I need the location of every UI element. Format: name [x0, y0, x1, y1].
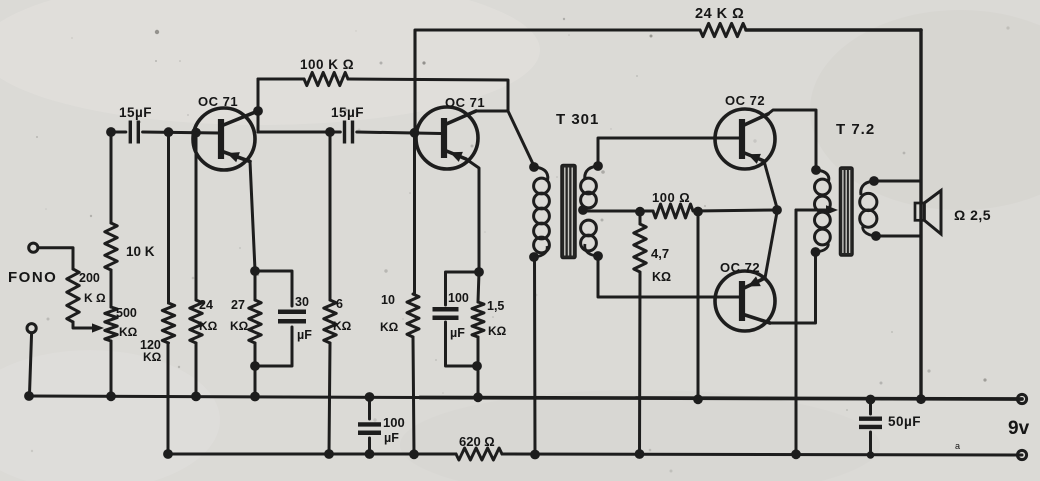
- emitter Q1 diagonal with arrow: [221, 151, 250, 162]
- label 24: [199, 298, 213, 312]
- wire right vertical from 24K corner down to bottom rail (through speaker): [919, 30, 922, 399]
- wire cap1 right lead to Q1 base: [143, 132, 219, 133]
- wire FONO lower terminal down to ground rail: [30, 333, 32, 394]
- wire 100K right lead and corner down: [348, 79, 508, 111]
- junction dot Q1 base: [191, 128, 201, 138]
- label OC 71 (Q2): [445, 95, 485, 110]
- label 50µF: [888, 414, 921, 429]
- wire Q2 collector diagonal: [444, 111, 476, 125]
- wire T7.2 center tap with arrow: [796, 205, 838, 215]
- wire 100K left lead: [258, 78, 304, 81]
- wire Q4 emitter up to common junction: [765, 212, 777, 278]
- wire Q2 base bias vertical from top rail through 10K to lower rail: [407, 133, 419, 454]
- wire T301 primary bottom to lower rail: [533, 257, 537, 454]
- label 30: [295, 295, 309, 309]
- junction dot 30uF bottom on 27K line: [250, 361, 260, 371]
- svg-text:15µF: 15µF: [119, 105, 152, 120]
- label KΩ (10K Q2): [380, 320, 399, 334]
- wire lower supply rail left of 620: [168, 343, 456, 454]
- label KΩ (27K): [230, 319, 249, 333]
- junction dot rail x29 (left end): [24, 391, 34, 401]
- svg-text:OC 72: OC 72: [720, 260, 760, 275]
- junction dot lower rail x535: [530, 450, 540, 460]
- svg-text:KΩ: KΩ: [199, 319, 218, 333]
- junction dot rail x196: [191, 392, 201, 402]
- svg-text:24 K Ω: 24 K Ω: [695, 6, 744, 22]
- label OC 72 (Q4): [720, 260, 760, 275]
- capacitor C-15uF input stage1: [130, 121, 138, 144]
- label 10 (10K Q2): [381, 293, 395, 307]
- junction dot 50uF bottom: [867, 451, 875, 459]
- svg-text:KΩ: KΩ: [380, 320, 399, 334]
- capacitor C-50uF battery bypass: [859, 400, 882, 456]
- junction dot cap1 left (111,132): [106, 127, 116, 137]
- label T 7.2: [836, 121, 875, 138]
- wire cap2 right lead to Q2 base: [357, 132, 441, 134]
- junction dot Q2 emitter node: [474, 267, 484, 277]
- junction dot 100uF bottom on 1.5K line: [472, 361, 482, 371]
- label KΩ (24K): [199, 319, 218, 333]
- label 6: [336, 297, 343, 311]
- svg-text:24: 24: [199, 298, 213, 312]
- junction dot rail x698: [693, 394, 703, 404]
- wire 100ohm to emitters junction: [695, 210, 777, 211]
- terminal FONO lower: [27, 324, 36, 333]
- svg-text:µF: µF: [384, 431, 399, 445]
- svg-text:100: 100: [448, 291, 469, 305]
- junction dot T301 secondary top: [593, 161, 603, 171]
- svg-text:620 Ω: 620 Ω: [459, 434, 495, 449]
- label µF (C stage2): [450, 326, 465, 340]
- terminal battery positive: [1017, 394, 1026, 403]
- svg-text:100: 100: [383, 415, 405, 430]
- wire Q2 collector diagonal to T301 primary top: [508, 111, 534, 166]
- resistor R-120K 120KΩ (line from base node down to lower rail): [162, 132, 174, 343]
- wire T301 secondary top to Q3 base: [598, 138, 740, 166]
- wire stage2 coupling from Q1 collector: [258, 131, 340, 134]
- svg-text:T 301: T 301: [556, 111, 599, 128]
- emitter Q4 diagonal with arrow: [742, 276, 765, 289]
- wire Q1 collector up to 100K: [257, 79, 260, 111]
- junction dot lower rail x329: [324, 449, 334, 459]
- svg-text:4,7: 4,7: [651, 246, 669, 261]
- label K Ω (200K): [84, 291, 106, 305]
- svg-text:KΩ: KΩ: [488, 324, 507, 338]
- junction dot T7.2 secondary top: [869, 176, 879, 186]
- label 100 (decoupling): [383, 415, 405, 430]
- wire T7.2 secondary bottom to speaker line: [876, 235, 921, 238]
- junction dot T301 center tap: [578, 205, 588, 215]
- svg-text:1,5: 1,5: [487, 299, 504, 313]
- svg-text:30: 30: [295, 295, 309, 309]
- junction dot 120K top: [164, 127, 174, 137]
- svg-text:27: 27: [231, 298, 245, 312]
- junction dot 6K top: [325, 127, 335, 137]
- svg-text:Ω 2,5: Ω 2,5: [954, 207, 991, 223]
- svg-text:10 K: 10 K: [126, 244, 155, 259]
- wire emitters bias vertical to upper rail: [697, 212, 700, 400]
- resistor R-100K 100KΩ: [304, 72, 348, 85]
- svg-text:15µF: 15µF: [331, 105, 364, 120]
- wire Q3 collector to T7.2 primary top: [768, 110, 816, 170]
- inter-stage transformer T301 secondary winding: [581, 166, 598, 256]
- label OC 71 (Q1): [198, 94, 238, 109]
- label 620 Ω: [459, 434, 495, 449]
- svg-text:50µF: 50µF: [888, 414, 921, 429]
- transistor Q4 OC72 lower output: [715, 271, 775, 331]
- junction dot rail x921: [916, 394, 926, 404]
- junction dot lower rail left corner: [163, 449, 173, 459]
- junction dot T7.2 secondary bottom: [871, 231, 881, 241]
- label KΩ (120K): [143, 350, 162, 364]
- label KΩ (500K): [119, 325, 138, 339]
- junction dot T301 primary top: [529, 162, 539, 172]
- label µF (decoupling): [384, 431, 399, 445]
- junction dot T301 secondary bottom: [593, 251, 603, 261]
- wire Q2 collector to 100K corner: [476, 110, 508, 113]
- wire 500K bottom to ground rail: [110, 341, 113, 396]
- wire T7.2 secondary top to speaker line: [874, 180, 921, 183]
- wiper arrow into 500K pot: [92, 323, 104, 332]
- label KΩ (4.7K): [652, 270, 671, 284]
- output transformer T7.2 secondary winding: [860, 181, 877, 236]
- svg-text:OC 72: OC 72: [725, 93, 765, 108]
- svg-text:100 K Ω: 100 K Ω: [300, 57, 354, 72]
- svg-text:OC 71: OC 71: [198, 94, 238, 109]
- resistor R-4.7K 4.7KΩ: [634, 212, 646, 454]
- wire between 10K and 500K: [110, 270, 113, 307]
- junction dot lower rail x414: [409, 449, 419, 459]
- junction dot Q1 collector: [253, 106, 263, 116]
- wire 200K bottom to wiper arrow: [73, 322, 94, 328]
- svg-text:µF: µF: [297, 328, 312, 342]
- inter-stage transformer T301 primary winding: [534, 167, 550, 257]
- wire Q1 collector down to stage2 coupling: [257, 111, 260, 132]
- transformer T301 core: [561, 165, 576, 259]
- junction dot rail x478: [473, 392, 483, 402]
- wire center tap to 100ohm: [583, 210, 653, 213]
- svg-text:KΩ: KΩ: [230, 319, 249, 333]
- svg-text:µF: µF: [450, 326, 465, 340]
- transformer T7.2 core: [840, 167, 854, 256]
- label 27: [231, 298, 245, 312]
- wire node A vertical 10K/500K column top: [110, 132, 113, 223]
- junction dot Q1 emitter node: [250, 266, 260, 276]
- resistor R-10K 10KΩ first stage: [105, 223, 117, 270]
- junction dot lower rail x639: [635, 449, 645, 459]
- resistor R-200K 200KΩ: [67, 269, 79, 322]
- wire Q3 emitter to common junction: [764, 161, 777, 208]
- label 15µF stage1: [119, 105, 152, 120]
- label 10 K: [126, 244, 155, 259]
- junction dot T7.2 primary top: [811, 165, 821, 175]
- svg-text:KΩ: KΩ: [119, 325, 138, 339]
- junction dot T7.2 primary bottom: [811, 247, 821, 257]
- transistor Q3 OC72 upper output: [715, 109, 775, 169]
- resistor R-6K 6KΩ: [324, 132, 336, 454]
- label T 301: [556, 111, 599, 128]
- junction dot emitter-rail vertical top: [693, 207, 703, 217]
- label 15µF stage2: [331, 105, 364, 120]
- svg-text:200: 200: [79, 271, 100, 285]
- wire Q4 collector to T7.2 primary bottom: [770, 252, 816, 323]
- stray mark small a: [955, 441, 960, 451]
- transistor Q2 OC71 second stage: [416, 107, 478, 169]
- wire Q1 collector diagonal: [221, 111, 258, 126]
- resistor R-100 100Ω: [653, 204, 693, 218]
- resistor R-1.5K 1.5KΩ emitter: [472, 272, 484, 397]
- capacitor C-100uF decoupling between rails: [358, 397, 381, 454]
- label KΩ (1.5K): [488, 324, 507, 338]
- potentiometer R-500K 500KΩ: [105, 307, 117, 341]
- wire cap1 left lead: [111, 131, 126, 134]
- wire top supply rail from corner above Q2 to 24K and right corner: [415, 30, 921, 132]
- wire Q1 emitter down to emitter node: [250, 162, 255, 271]
- resistor R-620 620Ω in lower rail: [456, 448, 502, 460]
- emitter Q3 diagonal with arrow: [742, 152, 764, 164]
- wire FONO upper terminal to 200K top: [38, 248, 73, 269]
- junction dot Q2 base: [410, 128, 420, 138]
- wire T301 secondary bottom to Q4 base: [598, 256, 740, 297]
- wire upper ground rail: [29, 396, 1022, 399]
- resistor R-24K2 24KΩ base-gnd: [190, 133, 202, 396]
- resistor R-24K 24KΩ top: [700, 23, 746, 36]
- junction dot emitters common: [772, 205, 782, 215]
- capacitor C-30uF 30µF emitter bypass: [255, 271, 306, 366]
- terminal battery negative: [1017, 450, 1026, 459]
- junction dot lower rail x796: [791, 449, 801, 459]
- label 500: [116, 306, 137, 320]
- wire Q4 collector diagonal: [742, 314, 770, 323]
- junction dot rail x255: [250, 392, 260, 402]
- junction dot 50uF top: [866, 395, 876, 405]
- label FONO: [8, 269, 57, 286]
- svg-text:K Ω: K Ω: [84, 291, 106, 305]
- junction dot 100uF-decoupling top: [365, 392, 375, 402]
- wire Q2 emitter down: [466, 159, 479, 271]
- svg-text:FONO: FONO: [8, 269, 57, 286]
- capacitor C-15uF2 coupling stage2: [345, 121, 353, 144]
- junction dot rail x111: [106, 391, 116, 401]
- label 9v: [1008, 418, 1030, 439]
- label 24 K Ω: [695, 6, 744, 22]
- svg-text:a: a: [955, 441, 960, 451]
- svg-text:100 Ω: 100 Ω: [652, 190, 690, 205]
- output transformer T7.2 primary winding: [815, 170, 831, 252]
- svg-text:KΩ: KΩ: [652, 270, 671, 284]
- svg-text:10: 10: [381, 293, 395, 307]
- svg-text:KΩ: KΩ: [143, 350, 162, 364]
- transistor Q1 OC71 first stage: [193, 108, 255, 170]
- label 120: [140, 338, 161, 352]
- label 100 Ω: [652, 190, 690, 205]
- svg-text:500: 500: [116, 306, 137, 320]
- capacitor C-100uF emitter bypass stage2: [433, 272, 480, 366]
- svg-text:KΩ: KΩ: [333, 319, 352, 333]
- label µF (30uF): [297, 328, 312, 342]
- label 1,5: [487, 299, 504, 313]
- wire lower supply rail right of 620: [502, 454, 1022, 455]
- junction dot lower rail x369: [365, 449, 375, 459]
- label 100 (C stage2): [448, 291, 469, 305]
- svg-text:T 7.2: T 7.2: [836, 121, 875, 138]
- wire Q3 collector diagonal: [742, 114, 768, 126]
- junction dot 4.7K top: [635, 207, 645, 217]
- label Ω 2,5: [954, 207, 991, 223]
- wire T7.2 center tap down to lower rail: [795, 210, 798, 454]
- label OC 72 (Q3): [725, 93, 765, 108]
- terminal FONO upper: [29, 243, 38, 252]
- emitter Q2 diagonal with arrow: [444, 150, 466, 162]
- junction dot T301 primary bottom: [529, 252, 539, 262]
- label 4,7: [651, 246, 669, 261]
- svg-text:9v: 9v: [1008, 418, 1030, 439]
- svg-text:6: 6: [336, 297, 343, 311]
- svg-text:OC 71: OC 71: [445, 95, 485, 110]
- label 100 K Ω: [300, 57, 354, 72]
- resistor R-27K 27KΩ emitter: [249, 271, 261, 396]
- speaker LS 2.5 ohm: [915, 191, 941, 235]
- label KΩ (6K): [333, 319, 352, 333]
- label 200: [79, 271, 100, 285]
